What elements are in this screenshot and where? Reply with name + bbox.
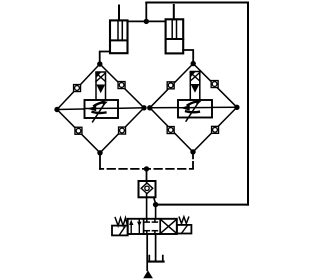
- node collector junction: [144, 166, 149, 171]
- check valve V8 (bridge2 bottom-right): [212, 126, 219, 133]
- DCV envelope divider 1: [143, 219, 145, 234]
- flow regulator FR2 throttle body: [178, 100, 212, 121]
- DCV left spring: [115, 218, 127, 227]
- check valve V9 line through: [146, 181, 148, 197]
- flow regulator FR1 pilot section: [96, 72, 106, 100]
- DCV envelope divider 2: [159, 219, 161, 234]
- wire cylinder interconnect: [128, 20, 166, 22]
- wire stub square corner to node: [154, 198, 156, 204]
- flow regulator FR1 throttle body: [85, 100, 119, 122]
- cylinder C1 piston: [110, 39, 128, 41]
- wire drop from top line to cylinder interconnect: [145, 3, 147, 22]
- wire node to DCV port B: [155, 205, 157, 219]
- DCV right spring: [179, 217, 189, 224]
- node bridge2 right: [234, 105, 239, 110]
- wire bridge1 bottom drop: [99, 153, 101, 169]
- DCV left solenoid diagonal: [119, 227, 125, 235]
- check valve V6 (bridge2 top-right): [211, 81, 218, 88]
- bridge 2 diamond: [150, 64, 237, 152]
- DCV center closed port T marks: [144, 219, 157, 234]
- flow regulator FR2 pilot section: [190, 72, 200, 101]
- node top junction: [144, 19, 149, 24]
- wire DCV port T down: [155, 234, 157, 261]
- pressure source triangle: [143, 270, 153, 278]
- wire bridge2 bottom drop: [192, 152, 194, 169]
- cylinder C1 rod sides: [117, 20, 119, 40]
- bridge 2 center flow line: [150, 106, 237, 109]
- DCV left solenoid box: [112, 226, 128, 236]
- wire right-side vertical run: [247, 3, 249, 205]
- DCV envelope1 down arrow: [138, 220, 140, 233]
- wire top supply line: [146, 2, 248, 4]
- node bridge1 top: [97, 61, 102, 66]
- cylinder C2 rod sides: [171, 19, 173, 39]
- cylinder C2 rod extension: [173, 5, 175, 19]
- check valve V9 seat diamond: [141, 183, 153, 194]
- wire dashed collector left: [100, 168, 147, 170]
- wire dashed collector right: [147, 168, 194, 170]
- check valve V9 ball: [145, 186, 149, 190]
- DCV 4/3 valve body: [128, 219, 177, 234]
- cylinder C1 rod extension: [118, 6, 120, 21]
- wire check valve to DCV port A: [146, 197, 148, 219]
- node bridge1 right: [141, 105, 146, 110]
- node right run junction: [153, 202, 158, 207]
- node bridge2 left: [147, 105, 152, 110]
- cylinder C2 piston: [166, 38, 184, 40]
- check valve V9 body: [139, 181, 156, 197]
- cylinder C2 body: [166, 19, 184, 53]
- DCV envelope1 up arrow: [130, 222, 132, 234]
- node bridge1 left: [54, 107, 59, 112]
- check valve V3 (bridge1 bottom-left): [75, 127, 82, 134]
- wire C1 port to left bridge top: [100, 52, 110, 64]
- DCV right solenoid diagonal: [182, 225, 188, 233]
- wire right-side bottom run to valve: [156, 204, 248, 206]
- check valve V7 (bridge2 bottom-left): [167, 127, 174, 134]
- DCV envelope3 crossed arrows: [160, 219, 177, 233]
- wire C2 port to right bridge top: [183, 50, 193, 63]
- check valve V1 (bridge1 top-left): [74, 85, 81, 92]
- tank symbol: [149, 256, 164, 262]
- node bridge2 bottom: [190, 149, 195, 154]
- node bridge1 bottom: [97, 150, 102, 155]
- check valve V2 (bridge1 top-right): [118, 82, 125, 89]
- bridge 1 diamond: [57, 64, 144, 153]
- wire DCV port P down: [146, 234, 148, 270]
- DCV right solenoid box: [177, 225, 192, 234]
- check valve V4 (bridge1 bottom-right): [119, 127, 126, 134]
- cylinder C1 body: [110, 20, 128, 53]
- check valve V5 (bridge2 top-left): [167, 82, 174, 89]
- bridge 1 center flow line: [57, 108, 144, 110]
- wire collector to check valve: [146, 169, 148, 181]
- node bridge2 top: [191, 61, 196, 66]
